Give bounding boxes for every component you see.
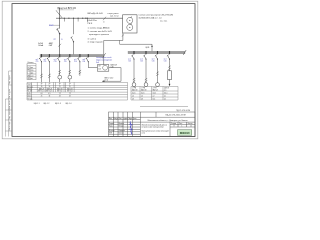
svg-text:4,5: 4,5 [48,93,50,95]
svg-text:3х1,5: 3х1,5 [164,92,168,94]
taps on main bus [42,54,89,57]
junction dot right feed [151,46,152,47]
svg-text:3х2,5: 3х2,5 [132,92,136,94]
svg-text:18: 18 [49,96,51,98]
meter circle A [127,24,133,30]
svg-text:4. ввод в здание: 4. ввод в здание [88,42,104,44]
wire: feed to right panel bus [120,44,152,51]
svg-text:Лист: Лист [179,123,183,125]
svg-text:Лист: Лист [119,118,123,120]
svg-text:П: П [174,126,175,128]
svg-text:3Р: 3Р [59,84,61,86]
svg-text:Сидоров: Сидоров [119,130,125,132]
wire: second conductor upper [73,18,75,34]
svg-text:3. L=25 м: 3. L=25 м [88,39,97,41]
socket circle on drop 3 [58,75,62,79]
svg-text:ЩИТОК: ЩИТОК [164,88,169,90]
socket circles right drops [132,83,136,87]
svg-text:С40: С40 [111,66,114,68]
breakers below main bus [39,57,88,62]
mini legend table [27,64,36,80]
svg-text:ЩК-1.3: ЩК-1.3 [55,103,61,105]
meter U1 box [123,15,137,33]
svg-text:гр.2: гр.2 [140,58,143,60]
svg-text:Подп. и дата: Подп. и дата [9,110,11,120]
logo box [178,130,192,136]
feeder cell boxes [37,82,74,92]
svg-text:гр.1: гр.1 [36,59,39,61]
svg-text:гр.1: гр.1 [128,58,131,60]
svg-text:ПД-21.076-2022-ЭОМ: ПД-21.076-2022-ЭОМ [165,115,185,117]
svg-text:4,8: 4,8 [141,98,143,100]
svg-text:ЩК-1.2: ЩК-1.2 [44,103,50,105]
svg-text:гр.2: гр.2 [44,59,47,61]
fuse box on right drop 4 [168,71,172,80]
svg-text:Обознач.: Обознач. [27,62,34,64]
svg-text:гр.5: гр.5 [74,59,77,61]
svg-text:QF: QF [28,78,30,80]
svg-text:2,2: 2,2 [153,95,155,97]
right panel bus bar [128,51,185,53]
left margin column rotated labels [8,75,11,131]
svg-text:Принципиальная схема питающей: Принципиальная схема питающей [142,129,169,132]
svg-text:101: 101 [98,69,101,71]
main bus bar [40,54,104,56]
label: reserve blue note [96,56,112,64]
PEN split diagonal [56,10,63,18]
svg-text:1. кабель ввода АВБШв: 1. кабель ввода АВБШв [88,27,110,30]
svg-text:1Р: 1Р [69,84,71,86]
svg-text:Изм: Изм [109,118,112,120]
svg-text:С16: С16 [74,61,77,63]
svg-text:ВВГ 3х4: ВВГ 3х4 [57,91,62,93]
svg-text:100мА: 100мА [38,44,44,47]
signature squiggle [130,122,132,135]
annotation notes block [88,20,113,44]
svg-text:Счетчик электроэнергии СЭБ-1ТМ: Счетчик электроэнергии СЭБ-1ТМ.02М [139,14,174,16]
arrowhead down [169,84,171,86]
svg-text:Ввод №1 ВРУ-1Б: Ввод №1 ВРУ-1Б [58,7,77,10]
cable slash mark on N bus [103,17,106,20]
wire: N bus horizontal [56,17,123,19]
blue labels right bus breakers [128,58,166,62]
svg-text:гр.4: гр.4 [164,58,167,60]
svg-text:Стадия: Стадия [171,123,176,125]
object name [142,123,169,134]
wire: bus breaker to sub meter [88,61,97,67]
underline of input label [58,9,75,11]
svg-text:ВВГ 3х2,5: ВВГ 3х2,5 [46,91,53,93]
svg-text:4,8: 4,8 [132,98,134,100]
wire: meter stub down with tick [122,33,124,40]
svg-text:С40: С40 [82,61,85,63]
svg-text:3х2,5: 3х2,5 [153,92,157,94]
svg-text:С25: С25 [44,61,47,63]
svg-text:С25: С25 [36,61,39,63]
svg-text:7,2: 7,2 [59,93,61,95]
main feeder table [27,82,128,100]
svg-text:16: 16 [41,86,43,88]
left margin column [5,71,12,137]
svg-text:Листов: Листов [188,123,193,125]
svg-text:2. сечение жил 4х35+1х25: 2. сечение жил 4х35+1х25 [88,31,113,33]
label: RCD ratings above bus [38,42,53,47]
svg-text:Н.контр.: Н.контр. [109,130,115,132]
bus end slash [102,53,105,58]
sub meter circle [103,65,108,70]
inner drawing frame [12,4,195,137]
outer page border [2,1,198,139]
drops from right bus [133,59,135,83]
svg-text:ВВГ 3х4: ВВГ 3х4 [67,91,72,93]
right bus end slash [183,50,186,55]
wire: main input riser [59,8,61,29]
svg-text:С16: С16 [128,61,131,63]
svg-text:Разраб.: Разраб. [109,123,115,125]
arrowhead on loop [102,80,104,82]
taps on right bus [134,51,170,54]
wire pair verticals [119,40,121,44]
svg-text:каб. 10 м: каб. 10 м [110,16,119,18]
svg-text:С25: С25 [54,61,57,63]
svg-text:С10: С10 [164,61,167,63]
svg-text:гос. пов.: гос. пов. [160,20,168,22]
svg-text:с: с [59,32,60,34]
svg-text:15: 15 [190,126,192,128]
blue labels of main bus breakers [36,59,86,63]
svg-text:Потреб.: Потреб. [27,98,33,100]
svg-text:Кабель: Кабель [27,88,32,90]
svg-text:25: 25 [41,96,43,98]
wire: second conductor lower [73,42,75,55]
svg-text:сети: сети [142,133,145,135]
table edge line above title block [140,105,188,107]
svg-text:нул: нул [31,67,34,69]
wire: corner to sub meter [104,40,123,64]
table row labels [27,84,33,101]
svg-text:ЩК-1.1: ЩК-1.1 [34,103,40,105]
title block small texts [109,117,136,134]
title block grid [109,112,196,137]
svg-text:16: 16 [49,86,51,88]
svg-text:3х2,5: 3х2,5 [141,92,145,94]
svg-text:счет: счет [31,75,34,77]
svg-text:0,1: 0,1 [164,95,166,97]
svg-text:4,0: 4,0 [41,93,43,95]
svg-text:гр.3: гр.3 [152,58,155,60]
svg-text:7,2: 7,2 [69,93,71,95]
svg-text:Петров: Петров [119,125,124,127]
hash marks right drops [133,66,171,83]
breaker QF1 on riser [57,29,60,34]
svg-text:С25: С25 [64,61,67,63]
svg-text:33: 33 [59,96,61,98]
socket circle on drop 4 [68,75,72,79]
svg-text:МФСИ: МФСИ [180,131,190,135]
phase count slash on riser [58,44,61,47]
short stubs below N bus [63,18,65,21]
wire: sub meter out loop [102,68,121,82]
svg-text:Рр, кВт: Рр, кВт [27,91,32,93]
svg-text:3х4: 3х4 [96,62,99,64]
labels below table [34,103,72,105]
svg-text:гр.6: гр.6 [82,59,85,61]
svg-text:Козлов: Козлов [119,133,124,135]
svg-text:Длина: Длина [27,96,31,98]
right feeder table [131,87,178,101]
svg-text:Пров.: Пров. [109,125,114,127]
svg-text:Подп. и дата: Подп. и дата [9,75,11,85]
svg-text:авт: авт [31,78,34,80]
svg-text:прокладка в траншее: прокладка в траншее [89,34,110,36]
svg-text:3х230/400В 5-60А кл.т. 1,: 3х230/400В 5-60А кл.т. 1,0 [139,16,162,19]
sub meter box U2 [97,65,108,72]
svg-text:33: 33 [69,96,71,98]
svg-text:ЩК-1.4: ЩК-1.4 [66,103,72,105]
hash marks on drops [40,70,81,78]
svg-text:Московская область, г. Дмитров: Московская область, г. Дмитров, ул. Нова… [148,120,188,122]
svg-text:25: 25 [69,86,71,88]
svg-text:встроенными помещениями: встроенными помещениями [142,127,164,129]
svg-text:в щит учета: в щит учета [108,13,120,15]
svg-text:ВВГнг(А)-LS 4х35: ВВГнг(А)-LS 4х35 [88,12,103,15]
svg-text:N: N [28,67,29,69]
svg-text:0,4кВ 25м: 0,4кВ 25м [88,20,98,22]
drops from main bus [41,62,43,83]
svg-text:Дата: Дата [133,118,136,120]
svg-text:ВА88: ВА88 [49,24,54,27]
svg-text:1Р: 1Р [41,84,43,86]
svg-text:PE: PE [28,70,30,72]
stadia grid texts [171,123,193,128]
svg-text:ВВГ 3х2,5: ВВГ 3х2,5 [38,91,45,93]
svg-text:1,0: 1,0 [132,95,134,97]
svg-text:С16: С16 [152,61,155,63]
svg-text:ГИП: ГИП [109,133,112,135]
label: meter description [139,14,174,22]
svg-text:PE N: PE N [88,23,93,25]
breaker QF1.2 on second conductor [71,37,73,41]
svg-text:25: 25 [59,86,61,88]
svg-text:гр.3: гр.3 [54,59,57,61]
svg-text:Группа: Группа [27,84,32,86]
meter circle Wh [127,17,133,23]
breakers below right bus [131,55,169,60]
svg-text:2Р: 2Р [49,84,51,86]
svg-text:0,5: 0,5 [164,98,166,100]
svg-text:ПР: ПР [54,39,56,41]
svg-text:Иванов: Иванов [119,123,124,125]
svg-text:10,6: 10,6 [153,98,156,100]
svg-text:гр.4: гр.4 [64,59,67,61]
svg-text:1,0: 1,0 [141,95,143,97]
svg-text:С16: С16 [140,61,143,63]
junction dots on N bus [59,18,88,19]
